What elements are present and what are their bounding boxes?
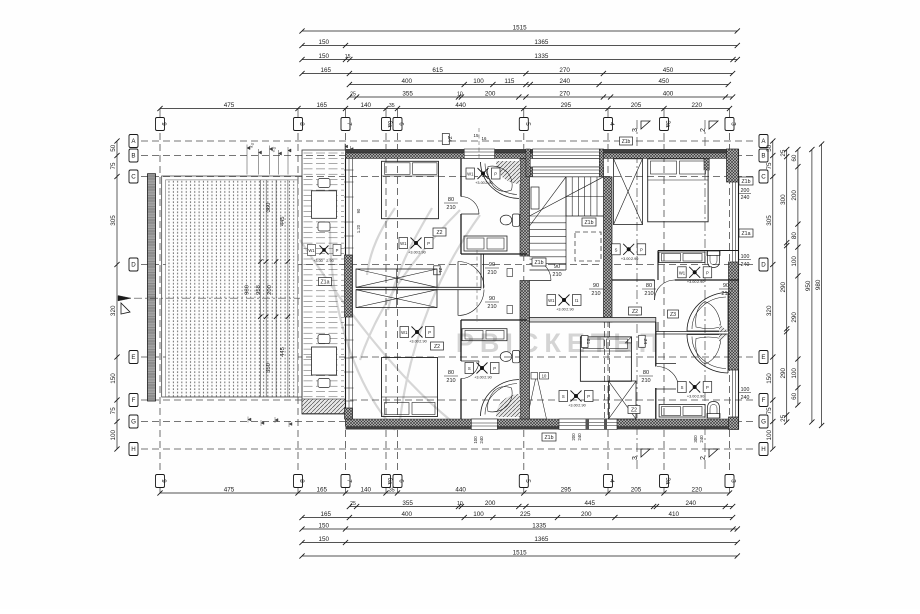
svg-text:200: 200 xyxy=(485,500,496,507)
svg-text:15: 15 xyxy=(474,133,479,138)
right unit door arc lower xyxy=(657,367,679,389)
svg-text:200: 200 xyxy=(791,190,798,201)
svg-text:90: 90 xyxy=(489,262,495,268)
terrace centerline xyxy=(118,297,300,299)
porch table and chairs lower xyxy=(318,335,330,344)
svg-text:7: 7 xyxy=(346,479,353,483)
light symbol left corridor upper xyxy=(411,238,422,249)
svg-text:5: 5 xyxy=(524,122,531,126)
svg-text:6: 6 xyxy=(398,479,405,483)
svg-text:300: 300 xyxy=(693,435,698,443)
corridor door lower xyxy=(457,290,459,316)
grid bubble row C left xyxy=(129,170,138,183)
svg-text:3: 3 xyxy=(632,128,639,132)
svg-text:6a: 6a xyxy=(386,478,393,485)
svg-text:50: 50 xyxy=(766,144,773,152)
svg-text:290: 290 xyxy=(780,281,787,292)
svg-text:3a: 3a xyxy=(664,478,671,485)
porch deck plank lines xyxy=(304,153,345,413)
svg-text:+3.00: +3.00 xyxy=(408,251,418,255)
svg-text:355: 355 xyxy=(402,90,413,97)
staircase upper flight treads xyxy=(566,177,597,216)
grid bubble row H right xyxy=(759,443,768,456)
bottom dimension line 165/400/100/225/200/410 xyxy=(302,517,733,519)
unit entry door in party wall xyxy=(530,280,552,282)
svg-text:400: 400 xyxy=(402,78,413,85)
svg-text:240: 240 xyxy=(577,433,582,441)
top dimension line 475/165/140/35/440/295/205/220 xyxy=(160,108,730,110)
svg-text:2.90: 2.90 xyxy=(697,280,704,284)
left dimension line 50/75/305/320/150/75/100 xyxy=(116,141,118,449)
svg-text:100: 100 xyxy=(473,511,484,518)
right unit wall lower right part xyxy=(676,370,739,372)
svg-text:2.90: 2.90 xyxy=(419,340,426,344)
right unit wardrobe top xyxy=(614,159,643,225)
top exterior wall solid edge xyxy=(346,149,739,153)
svg-text:8: 8 xyxy=(298,122,305,126)
svg-text:3a: 3a xyxy=(664,121,671,128)
top dimension stems xyxy=(159,109,161,118)
svg-text:5: 5 xyxy=(524,479,531,483)
section flag 1 left xyxy=(121,303,130,314)
right wall window lower 100/240 xyxy=(732,370,734,417)
svg-text:200: 200 xyxy=(571,433,576,441)
svg-text:+3.00: +3.00 xyxy=(474,376,484,380)
small marks below porch left xyxy=(248,417,292,428)
svg-text:165: 165 xyxy=(317,102,328,109)
svg-text:W1: W1 xyxy=(467,172,474,177)
corridor wall stub vertical xyxy=(480,254,482,289)
porch light symbol xyxy=(320,246,329,255)
porch outline xyxy=(302,150,346,414)
grid bubble col 9 top xyxy=(156,118,165,131)
grid bubble col 4 bottom xyxy=(604,475,613,488)
svg-text:140: 140 xyxy=(361,486,372,493)
bottom dimension line 150/1335/15 xyxy=(302,528,737,530)
right unit bathtub lower xyxy=(687,335,728,374)
right unit wall upper with door xyxy=(612,279,655,281)
svg-text:15: 15 xyxy=(345,54,351,60)
svg-text:6: 6 xyxy=(398,122,405,126)
right unit bath wall vertical xyxy=(655,322,657,367)
svg-text:F: F xyxy=(132,397,136,404)
right unit closet partition vertical xyxy=(657,251,659,281)
svg-text:25: 25 xyxy=(780,149,787,157)
svg-text:100: 100 xyxy=(473,436,478,444)
svg-text:S: S xyxy=(681,385,684,390)
grid bubble row A right xyxy=(759,135,768,148)
svg-text:220: 220 xyxy=(692,486,703,493)
top wall recess stairwell niche xyxy=(526,167,604,177)
right wall pier middle xyxy=(729,262,739,370)
svg-text:150: 150 xyxy=(319,39,330,46)
svg-text:1365: 1365 xyxy=(534,39,549,46)
svg-text:+3.00: +3.00 xyxy=(475,181,485,185)
svg-text:240: 240 xyxy=(741,195,750,201)
svg-text:200: 200 xyxy=(267,285,273,295)
label Z1a right wall xyxy=(739,229,753,237)
grid bubble row E right xyxy=(759,351,768,364)
grid bubble col 8 bottom xyxy=(294,475,303,488)
svg-text:615: 615 xyxy=(432,67,443,74)
light symbol left bathroom bottom xyxy=(477,363,488,374)
svg-text:950: 950 xyxy=(805,280,812,291)
left wall hatched pier bottom xyxy=(345,408,353,419)
svg-text:150: 150 xyxy=(319,536,330,543)
grid bubble col 7 bottom xyxy=(341,475,350,488)
grid bubble col 5 bottom xyxy=(519,475,528,488)
right wall pier bottom corner xyxy=(729,417,739,430)
svg-text:210: 210 xyxy=(446,205,455,211)
svg-text:300: 300 xyxy=(780,194,787,205)
bottom exterior wall solid edge xyxy=(346,427,739,430)
party wall left hatched lower xyxy=(520,281,530,420)
svg-text:16: 16 xyxy=(482,136,487,141)
svg-text:270: 270 xyxy=(559,67,570,74)
right unit vanity bottom xyxy=(659,405,705,418)
svg-text:400: 400 xyxy=(663,90,674,97)
svg-text:P: P xyxy=(706,270,709,275)
svg-text:205: 205 xyxy=(631,486,642,493)
left wall hatched pier middle xyxy=(345,255,353,317)
glazing mullions xyxy=(586,419,590,430)
toilet left unit bottom xyxy=(513,351,520,363)
porch table and chairs upper xyxy=(318,179,330,188)
svg-text:W1: W1 xyxy=(308,248,315,253)
svg-text:75: 75 xyxy=(110,407,117,415)
svg-text:2.90: 2.90 xyxy=(578,404,585,408)
staircase cut diagonals xyxy=(530,177,604,216)
svg-text:Z2: Z2 xyxy=(434,344,440,350)
light symbol right unit bath bottom xyxy=(689,382,700,393)
svg-text:165: 165 xyxy=(320,511,331,518)
top dimension line 165/615/270/450 xyxy=(302,73,733,75)
left unit corridor wall upper xyxy=(461,253,527,255)
corridor door upper xyxy=(457,262,459,288)
svg-text:220: 220 xyxy=(692,102,703,109)
svg-text:B: B xyxy=(761,153,765,160)
svg-text:90: 90 xyxy=(723,283,729,289)
svg-text:475: 475 xyxy=(224,486,235,493)
left unit bathroom door 80/210 upper xyxy=(461,213,479,215)
svg-text:80: 80 xyxy=(643,370,649,376)
svg-text:G: G xyxy=(761,419,766,426)
svg-text:90: 90 xyxy=(356,208,361,213)
grid bubble col 9 bottom xyxy=(156,475,165,488)
svg-text:2.90: 2.90 xyxy=(566,308,573,312)
party wall left hatched upper xyxy=(520,159,530,257)
svg-text:60: 60 xyxy=(791,392,798,400)
right unit bathtub upper xyxy=(687,293,728,332)
grid bubble row F left xyxy=(129,394,138,407)
svg-text:150: 150 xyxy=(319,522,330,529)
right unit toilet top xyxy=(707,251,720,256)
svg-text:165: 165 xyxy=(317,486,328,493)
grid bubble col 3a bottom xyxy=(660,475,669,488)
label door upper corridor xyxy=(434,266,441,275)
left unit bathroom door 80/210 lower xyxy=(461,360,479,362)
svg-text:H: H xyxy=(761,446,765,453)
light symbol left corridor lower xyxy=(412,327,423,338)
left unit corridor wall lower xyxy=(461,319,527,321)
light symbol left bathroom top xyxy=(478,168,489,179)
bottom exterior wall hatch xyxy=(346,419,739,427)
top wall window over stairwell xyxy=(533,149,600,159)
grid bubble row G right xyxy=(759,415,768,428)
right unit door arc upper xyxy=(654,280,656,300)
svg-text:C: C xyxy=(761,174,766,181)
tilt-door labels xyxy=(531,373,538,380)
bottom dimension line 25/355/10/200/25/445/10/240/25 xyxy=(349,506,732,508)
label Z2 left bottom xyxy=(431,342,444,350)
svg-text:240: 240 xyxy=(559,78,570,85)
svg-text:210: 210 xyxy=(641,378,650,384)
watermark logo swoosh xyxy=(300,208,480,430)
svg-text:2.90: 2.90 xyxy=(697,395,704,399)
svg-text:25: 25 xyxy=(350,91,356,97)
svg-text:Z1b: Z1b xyxy=(585,220,594,226)
porch label Z1a xyxy=(319,278,332,286)
right unit toilet bottom xyxy=(707,414,720,419)
svg-text:Z2: Z2 xyxy=(436,230,442,236)
svg-text:210: 210 xyxy=(487,304,496,310)
svg-text:P: P xyxy=(493,366,496,371)
top dimension line 400/100/115/15/240/450 xyxy=(349,84,728,86)
middle bedroom double bed xyxy=(580,337,631,381)
svg-text:P: P xyxy=(587,394,590,399)
label Z2 left corridor xyxy=(433,228,446,236)
window axis dashed line xyxy=(478,128,480,158)
svg-text:S: S xyxy=(562,394,565,399)
svg-text:240: 240 xyxy=(699,435,704,443)
grid bubble col 8 top xyxy=(294,118,303,131)
grid bubble row C right xyxy=(759,170,768,183)
bed bottom-left xyxy=(382,358,438,417)
right dimension line 980 total xyxy=(821,144,823,426)
svg-text:475: 475 xyxy=(224,102,235,109)
top dimension line total 1515 xyxy=(302,30,737,32)
svg-text:2: 2 xyxy=(700,456,707,460)
svg-text:980: 980 xyxy=(815,279,822,290)
grid bubble col 6 bottom xyxy=(393,475,402,488)
bottom dimension line total 1515 xyxy=(302,555,737,557)
label Z3 right unit hall xyxy=(668,310,679,318)
svg-text:320: 320 xyxy=(110,305,117,316)
light symbol middle bedroom xyxy=(571,391,582,402)
bottom wall window left unit xyxy=(471,419,497,430)
bathtub corner top left unit xyxy=(496,161,520,184)
terrace left retaining wall brick hatch xyxy=(148,174,156,401)
label Z1b right wall upper xyxy=(739,177,753,185)
svg-text:290: 290 xyxy=(791,312,798,323)
terrace dimension ticks xyxy=(258,259,262,263)
wall above dashed lines below party wall right xyxy=(604,322,606,419)
svg-text:445: 445 xyxy=(280,347,286,357)
bottom dimension line 475/165/140/35/440/295/205/220 xyxy=(160,492,730,494)
left unit bathroom partition vertical lower xyxy=(460,320,462,361)
svg-text:Z4: Z4 xyxy=(446,136,452,142)
svg-text:445: 445 xyxy=(585,500,596,507)
right wall pier top corner xyxy=(727,149,739,182)
svg-text:210: 210 xyxy=(446,378,455,384)
svg-text:150: 150 xyxy=(110,373,117,384)
label Z1 left of bed xyxy=(582,336,589,348)
grid bubble row B left xyxy=(129,149,138,162)
svg-text:440: 440 xyxy=(455,486,466,493)
closet lower left unit corridor xyxy=(356,290,437,308)
label Z2 right unit lower xyxy=(628,406,640,414)
right unit wall stub near bed xyxy=(704,159,709,171)
svg-text:140: 140 xyxy=(361,102,372,109)
svg-text:25: 25 xyxy=(780,414,787,422)
svg-text:10: 10 xyxy=(542,374,547,379)
svg-text:205: 205 xyxy=(631,102,642,109)
svg-text:P: P xyxy=(428,330,431,335)
svg-text:35: 35 xyxy=(389,487,395,493)
svg-text:1335: 1335 xyxy=(532,522,547,529)
svg-text:1365: 1365 xyxy=(534,536,549,543)
svg-text:W1: W1 xyxy=(548,298,555,303)
svg-text:450: 450 xyxy=(658,78,669,85)
svg-text:240: 240 xyxy=(686,500,697,507)
svg-text:10: 10 xyxy=(457,501,463,507)
staircase handrail line xyxy=(566,196,604,198)
svg-text:S: S xyxy=(468,366,471,371)
svg-text:100: 100 xyxy=(741,387,750,393)
grid bubble row B right xyxy=(759,149,768,162)
svg-text:2.90: 2.90 xyxy=(418,251,425,255)
staircase lower flight treads xyxy=(530,216,567,264)
right unit bath2 corridor stubs xyxy=(656,363,676,365)
label Z1b lower xyxy=(532,258,546,266)
top dimension line 150/1365 xyxy=(302,45,737,47)
svg-text:4: 4 xyxy=(608,479,615,483)
svg-text:Z1b: Z1b xyxy=(742,179,751,185)
grid bubble col 4 top xyxy=(604,118,613,131)
svg-text:440: 440 xyxy=(455,102,466,109)
svg-text:958: 958 xyxy=(256,285,262,295)
stairwell niche side walls xyxy=(526,149,530,177)
svg-text:+3.00: +3.00 xyxy=(621,257,631,261)
svg-text:35: 35 xyxy=(389,103,395,109)
grid bubble row D left xyxy=(129,258,138,271)
svg-text:S: S xyxy=(615,247,618,252)
right unit bath divider wall xyxy=(656,331,729,333)
svg-text:P: P xyxy=(640,247,643,252)
svg-text:+3.00: +3.00 xyxy=(409,340,419,344)
svg-text:80: 80 xyxy=(791,232,798,240)
svg-text:1335: 1335 xyxy=(534,53,549,60)
svg-text:75: 75 xyxy=(110,162,117,170)
svg-text:100: 100 xyxy=(791,256,798,267)
svg-text:445: 445 xyxy=(280,216,286,226)
svg-text:400: 400 xyxy=(402,511,413,518)
svg-text:80: 80 xyxy=(646,283,652,289)
svg-text:2.90: 2.90 xyxy=(631,257,638,261)
svg-text:410: 410 xyxy=(669,511,680,518)
window axis dashes corridor xyxy=(476,250,478,322)
svg-text:1515: 1515 xyxy=(513,549,528,556)
svg-text:1.20: 1.20 xyxy=(356,224,361,233)
vanity left unit top xyxy=(464,236,507,251)
bottom wall glazed opening middle bedroom xyxy=(559,419,617,430)
bathtub corner bottom left unit xyxy=(496,394,520,417)
svg-text:Z1b: Z1b xyxy=(622,139,631,145)
right unit bed top xyxy=(648,159,708,222)
right dimension line 950 total xyxy=(811,150,813,423)
label Z1b above right unit wall xyxy=(620,137,633,145)
terrace inner dimension lines xyxy=(259,180,261,397)
grid bubble col 5 top xyxy=(519,118,528,131)
right unit wardrobe bottom xyxy=(609,381,637,419)
grid bubble col 6a bottom xyxy=(382,475,391,488)
grid bubble col 6 top xyxy=(393,118,402,131)
svg-text:90: 90 xyxy=(554,264,560,270)
svg-text:25: 25 xyxy=(350,501,356,507)
svg-text:295: 295 xyxy=(561,486,572,493)
svg-text:305: 305 xyxy=(766,215,773,226)
svg-text:200: 200 xyxy=(485,90,496,97)
right wall window upper 200/240 xyxy=(732,182,734,262)
svg-text:295: 295 xyxy=(561,102,572,109)
svg-text:320: 320 xyxy=(766,305,773,316)
terrace dotted paving xyxy=(166,180,298,397)
svg-text:Z2: Z2 xyxy=(632,309,638,315)
staircase landing line xyxy=(566,215,604,217)
left wall glazing ticks xyxy=(344,170,354,401)
grid bubble row D right xyxy=(759,258,768,271)
bottom dimension line 150/1365 xyxy=(302,542,737,544)
svg-text:Z1b: Z1b xyxy=(535,260,544,266)
section cut dash-dot lines 3 and 2 xyxy=(637,120,705,470)
svg-text:3: 3 xyxy=(730,122,737,126)
grid bubble row E left xyxy=(129,351,138,364)
right unit vanity top xyxy=(659,252,705,263)
vanity left unit bottom xyxy=(462,329,507,341)
left unit corridor divider wall xyxy=(356,286,481,288)
label Z1b upper xyxy=(582,218,596,226)
svg-text:210: 210 xyxy=(721,291,730,297)
svg-text:270: 270 xyxy=(559,90,570,97)
svg-text:9: 9 xyxy=(160,122,167,126)
svg-text:2.90: 2.90 xyxy=(326,259,333,263)
svg-text:+3.00: +3.00 xyxy=(313,259,323,263)
svg-text:Z1a: Z1a xyxy=(742,231,751,237)
svg-text:2.90: 2.90 xyxy=(484,376,491,380)
grid bubble row H left xyxy=(129,443,138,456)
grid bubble col 3a top xyxy=(660,118,669,131)
svg-text:90: 90 xyxy=(593,283,599,289)
grid bubble row A left xyxy=(129,135,138,148)
svg-text:3: 3 xyxy=(730,479,737,483)
svg-text:115: 115 xyxy=(504,78,515,85)
level marks above terrace xyxy=(247,145,291,175)
svg-text:W1: W1 xyxy=(401,330,408,335)
light symbol stair hall xyxy=(559,295,570,306)
grid bubble col 6a top xyxy=(382,118,391,131)
tilt-door symbol middle bedroom xyxy=(527,375,537,420)
toilet left unit top xyxy=(513,214,520,226)
grid bubble col 3 top xyxy=(725,118,734,131)
left exterior wall glazing xyxy=(345,159,347,420)
svg-text:D: D xyxy=(131,262,136,269)
grid bubble col 7 top xyxy=(341,118,350,131)
svg-text:+3.00: +3.00 xyxy=(687,280,697,284)
stairwell dashed opening xyxy=(575,232,601,261)
svg-text:C: C xyxy=(131,174,136,181)
svg-text:210: 210 xyxy=(552,272,561,278)
svg-text:10: 10 xyxy=(457,91,463,97)
